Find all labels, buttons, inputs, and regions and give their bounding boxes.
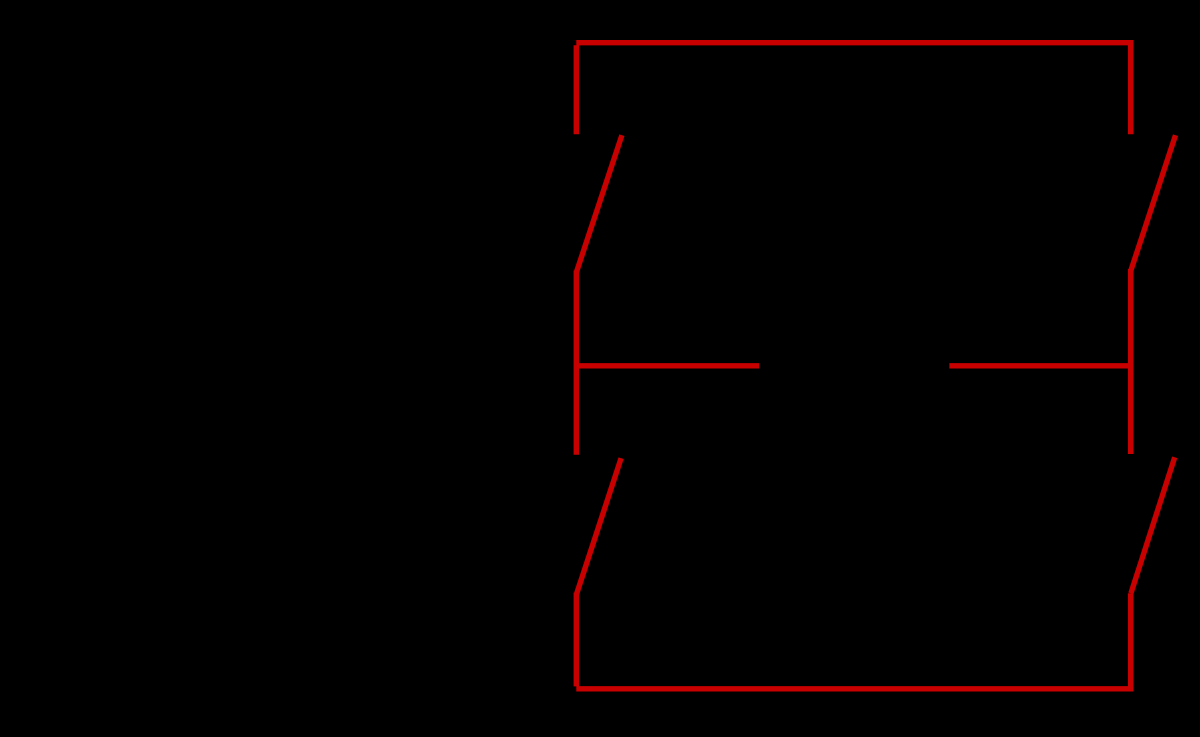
svg-text:S2: S2 [640, 510, 689, 554]
svg-text:−: − [255, 345, 278, 389]
wire: middle rail left segment (to motor) [576, 363, 759, 368]
wire: middle rail right segment (from motor) [949, 363, 1130, 368]
wire: right mid vertical (S3 bottom to S4 top terminal) [1128, 269, 1133, 454]
motor M1 circle [762, 273, 947, 458]
switch S1 (upper left) blade [576, 135, 622, 272]
wire: black wire from battery + to top rail [200, 43, 576, 330]
switch S4 (lower right) blade [1131, 457, 1175, 593]
svg-text:S1: S1 [640, 185, 689, 229]
switch S2 (lower left) blade [576, 458, 621, 594]
svg-text:S3: S3 [1060, 185, 1109, 229]
wire: left mid vertical (S1 bottom to S2 top terminal) [574, 271, 579, 455]
wire: bottom supply rail with lower switch bottom stubs [576, 593, 1130, 689]
battery V_in [155, 337, 245, 360]
switch S3 (upper right) blade [1131, 135, 1176, 271]
wire: top supply rail with upper switch terminal stubs [576, 43, 1130, 135]
svg-text:S4: S4 [1060, 510, 1109, 554]
svg-text:M: M [814, 313, 893, 419]
wire: black wire from battery - to bottom rail [200, 367, 576, 689]
